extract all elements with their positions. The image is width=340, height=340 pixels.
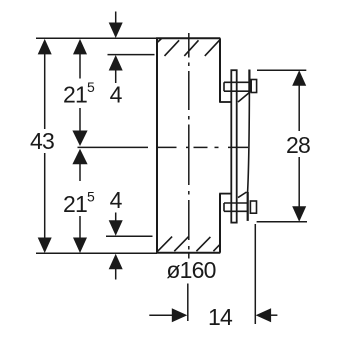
feature line 4 top <box>108 54 155 56</box>
cover plate outline <box>157 38 220 252</box>
dimension 21.5 bottom line <box>79 164 81 238</box>
svg-text:43: 43 <box>30 128 54 154</box>
dimension 28 arrows <box>292 70 306 222</box>
svg-text:4: 4 <box>110 81 123 107</box>
dimension 21.5 bottom arrows <box>72 149 87 253</box>
svg-text:4: 4 <box>110 187 123 213</box>
bottom clip right bar <box>247 192 249 221</box>
hatching bottom <box>158 237 221 252</box>
horizontal centerline <box>78 146 249 148</box>
top clip left lug <box>224 82 249 91</box>
hatching top <box>157 39 219 56</box>
feature line 4 bottom <box>106 235 153 237</box>
extension line top left <box>36 37 157 39</box>
dimension 14 right arrow <box>256 308 278 322</box>
svg-text:14: 14 <box>208 304 233 330</box>
dimension 43 arrows <box>38 39 52 253</box>
bottom chamfer <box>238 192 247 198</box>
dimension 21.5 top arrows <box>72 39 87 146</box>
dimension 14 left arrow <box>149 308 187 322</box>
mounting plate <box>231 70 236 222</box>
svg-text:ø160: ø160 <box>166 257 215 283</box>
bottom clip left lug <box>224 203 248 211</box>
extension line 28 bottom <box>257 221 307 223</box>
top clip right lug <box>251 80 256 93</box>
dimension 4 top arrows <box>109 23 123 71</box>
vertical centerline <box>188 33 190 259</box>
dimension 43 line <box>44 54 46 238</box>
top chamfer <box>238 93 249 103</box>
dimension 21.5 top line <box>79 54 81 132</box>
boss step top <box>219 101 231 103</box>
dimension 4 bottom arrows <box>109 220 123 269</box>
spring arm <box>248 93 250 193</box>
top clip right bar <box>248 70 250 93</box>
extension line bottom left <box>36 252 157 254</box>
svg-text:28: 28 <box>286 132 310 158</box>
extension line 14 left <box>187 284 189 322</box>
extension line 14 right <box>254 224 256 324</box>
bottom clip right lug <box>250 201 256 213</box>
boss step bottom <box>219 193 231 195</box>
extension line 28 top <box>257 69 306 71</box>
dimension 28 line <box>298 86 300 207</box>
